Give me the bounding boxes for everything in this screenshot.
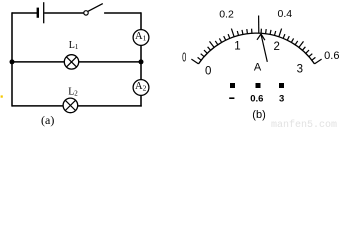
svg-text:1: 1 — [234, 40, 240, 52]
terminal square 2 — [256, 83, 261, 88]
wire A2 to bottom-right corner — [140, 95, 142, 106]
battery: long thin plate (positive) — [43, 2, 45, 23]
svg-text:A1: A1 — [135, 31, 147, 42]
svg-text:L2: L2 — [68, 86, 78, 97]
svg-text:2: 2 — [273, 41, 279, 53]
svg-text:L1: L1 — [69, 40, 79, 51]
svg-text:0: 0 — [182, 50, 186, 65]
svg-text:0: 0 — [205, 65, 211, 77]
svg-text:0.4: 0.4 — [277, 8, 292, 20]
wire bottom right segment — [78, 105, 142, 107]
needle arrow — [257, 34, 267, 62]
wire middle branch left — [12, 61, 64, 63]
svg-text:A2: A2 — [135, 81, 147, 92]
wire middle branch right — [79, 61, 141, 63]
ammeter A2 — [133, 80, 149, 96]
lamp L2 — [63, 98, 78, 113]
meter scale arc — [199, 33, 315, 64]
lamp L1 — [64, 55, 78, 69]
wire bottom left segment — [12, 105, 63, 107]
ammeter A1 — [133, 30, 149, 46]
wire top left segment — [12, 12, 37, 14]
terminal square 3 — [279, 83, 284, 88]
switch blade (open) — [88, 4, 103, 12]
svg-text:manfen5.com: manfen5.com — [271, 119, 337, 129]
wire switch to top-right corner — [104, 12, 141, 14]
node: left junction dot — [10, 59, 15, 64]
svg-text:(a): (a) — [41, 113, 54, 127]
tick marks (30 divisions) — [191, 16, 321, 64]
node: right junction dot — [139, 59, 144, 64]
switch S pivot circle — [84, 11, 88, 15]
svg-text:0.6: 0.6 — [324, 50, 339, 62]
svg-text:3: 3 — [297, 63, 303, 75]
wire left vertical — [11, 12, 13, 106]
wire right vertical top (corner to A1) — [140, 12, 142, 30]
terminal square 1 — [230, 83, 235, 88]
wire A1 to junction to A2 — [140, 45, 142, 79]
svg-text:0.2: 0.2 — [219, 9, 234, 21]
svg-text:3: 3 — [279, 93, 284, 104]
svg-text:(b): (b) — [252, 109, 265, 121]
svg-text:0.6: 0.6 — [250, 93, 263, 104]
watermark yellow dot — [1, 95, 3, 97]
svg-text:A: A — [254, 62, 262, 74]
wire battery to switch — [44, 12, 84, 14]
battery: short thick plate (negative) — [37, 8, 39, 18]
terminal label minus — [229, 97, 234, 99]
